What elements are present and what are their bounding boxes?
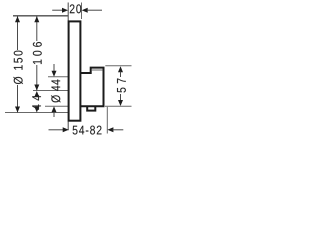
wire extension line top [13, 15, 68, 17]
wire extension line knob bottom left [45, 105, 68, 107]
wire wall line below plate [67, 122, 69, 131]
dimension D150 plate diameter [13, 16, 22, 112]
wire extension line mid left [33, 90, 68, 92]
wire extension line above plate front [81, 3, 83, 20]
bottom tab on body [87, 104, 95, 111]
dimension 54-82 depth range [49, 126, 124, 135]
dimension 20 plate depth [52, 4, 102, 13]
wire wall line above plate [67, 3, 69, 21]
escutcheon plate side view [69, 21, 81, 120]
handle body side view [81, 68, 104, 107]
dimension 106 [33, 16, 42, 90]
wire extension line depth right [106, 107, 108, 134]
dimension 44 chained [32, 91, 41, 113]
wire extension line knob top left [48, 76, 68, 78]
dimension 57 body height [117, 66, 126, 106]
inner edge line below body top [92, 69, 103, 71]
dimension D44 knob diameter [51, 64, 60, 117]
wire extension line body bottom right [105, 105, 132, 107]
wire extension line bottom left [5, 112, 68, 114]
wire extension line body top right [105, 65, 131, 67]
